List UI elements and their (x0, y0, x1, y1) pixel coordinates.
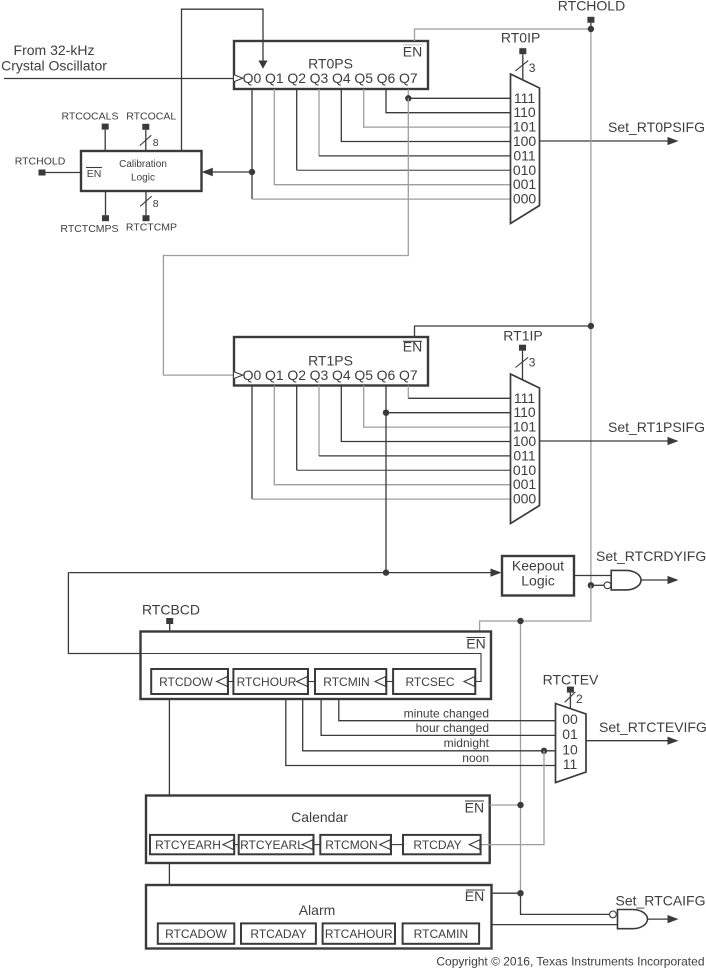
register RTCYEARL (239, 835, 314, 854)
svg-text:RTCMIN: RTCMIN (323, 675, 369, 689)
and gate U5 (RTCRDYIFG) (604, 570, 641, 590)
svg-text:Q4: Q4 (332, 367, 351, 383)
wire: RTCMON carry to RTCYEARL (314, 844, 321, 846)
node: Q7 junction (405, 95, 411, 101)
svg-text:Q5: Q5 (354, 367, 373, 383)
node: alarm EN junction (517, 890, 523, 896)
node: 1-Hz junction (383, 569, 389, 575)
wire: RT1PS Q6 to mux 110 (386, 386, 511, 413)
svg-text:EN: EN (87, 168, 102, 180)
svg-text:Crystal Oscillator: Crystal Oscillator (1, 58, 107, 74)
register block RTCBCD (141, 632, 492, 700)
svg-text:EN: EN (465, 800, 484, 816)
node: calendar EN junction (517, 802, 523, 808)
node: From 32-kHz Crystal Oscillator (1, 42, 107, 74)
register RTCYEARH (150, 835, 234, 854)
wire: RT1PS Q3 to mux 011 (318, 386, 320, 456)
wire: alarm EN to enable line (492, 892, 521, 894)
wire: RTCDAY carry to RTCMON (391, 844, 403, 846)
wire: RT0PS Q5 to mux 101 (364, 89, 511, 127)
svg-text:RTCAMIN: RTCAMIN (414, 927, 468, 941)
wire: RTCHOLD enable distribution elbow (480, 585, 591, 631)
wire: Set_RTCAIFG output (616, 893, 706, 924)
wire: enable vertical to calendar and alarm (520, 621, 522, 893)
port RTCOCAL bus 8 (126, 111, 176, 152)
register RTCHOUR (233, 669, 308, 694)
port RTCTEV bus 2 (543, 672, 599, 709)
wire: Set_RTCRDYIFG output (596, 548, 706, 584)
wire: RTCBCD to calendar (168, 699, 170, 796)
svg-text:RTCDAY: RTCDAY (413, 838, 461, 852)
port RTCHOLD (top) (558, 0, 625, 29)
wire: RTCMIN carry to RTCHOUR (308, 681, 315, 683)
svg-text:Keepout: Keepout (512, 558, 564, 574)
register RT1PS (234, 337, 428, 386)
svg-text:From 32-kHz: From 32-kHz (14, 42, 95, 58)
register RTCSEC (393, 669, 475, 694)
svg-text:Q1: Q1 (265, 70, 284, 86)
node: RTCHOLD junction (588, 26, 594, 32)
svg-text:000: 000 (513, 491, 537, 507)
svg-text:Copyright © 2016, Texas Instru: Copyright © 2016, Texas Instruments Inco… (436, 955, 704, 969)
wire: RT1PS Q0 to mux 000 (251, 386, 253, 500)
wire: keepout to AND gate (574, 575, 611, 577)
svg-text:midnight: midnight (444, 736, 490, 750)
mux U6 RTCTEV (556, 704, 587, 783)
wire: RT0PS Q7 down to RT1PS clock (163, 98, 408, 375)
svg-text:2: 2 (576, 692, 583, 706)
svg-text:RTCHOLD: RTCHOLD (558, 0, 625, 14)
node: midnight tap junction (541, 748, 547, 754)
svg-text:8: 8 (153, 198, 159, 210)
wire: RT0PS Q3 to mux 011 (318, 89, 320, 156)
svg-text:Set_RTCRDYIFG: Set_RTCRDYIFG (596, 548, 706, 564)
svg-text:Q1: Q1 (265, 367, 284, 383)
svg-text:Logic: Logic (131, 173, 155, 184)
svg-text:Q6: Q6 (377, 367, 396, 383)
wire: RTCHOLD to RT0PS EN (415, 29, 591, 41)
svg-text:RTCSEC: RTCSEC (405, 675, 454, 689)
svg-text:Calendar: Calendar (291, 809, 348, 825)
svg-text:Set_RTCAIFG: Set_RTCAIFG (616, 893, 706, 909)
wire: Set_RT1PSIFG output (540, 419, 706, 445)
wire: RT0PS Q1 to mux 001 (274, 89, 510, 185)
wire: noon to mux 11 (286, 699, 556, 766)
svg-text:RTCHOUR: RTCHOUR (237, 675, 297, 689)
keepout logic U4 (502, 556, 574, 596)
svg-text:Q0: Q0 (243, 367, 262, 383)
svg-text:Q7: Q7 (399, 70, 418, 86)
wire: RT0PS Q0 to mux 000 (251, 89, 253, 199)
wire: RT0PS Q6 to mux 110 (386, 89, 511, 113)
svg-text:RTCADAY: RTCADAY (250, 927, 306, 941)
svg-text:RTCDOW: RTCDOW (159, 675, 213, 689)
wire: RT1PS Q6 down to keepout/RTCSEC (385, 413, 387, 573)
register RTCDAY (403, 835, 481, 854)
register RTCMIN (315, 669, 386, 694)
svg-text:Q3: Q3 (310, 70, 329, 86)
wire: minute changed to mux 00 (339, 699, 556, 721)
node: Q6 junction (1 Hz) (383, 410, 389, 416)
register RTCDOW (151, 669, 228, 694)
node: RT1PS EN junction (588, 323, 594, 329)
wire: RT0PS Q7 to mux 111 (407, 89, 409, 98)
svg-text:RTCTCMPS: RTCTCMPS (60, 223, 118, 235)
svg-text:Q7: Q7 (399, 367, 418, 383)
wire: RT1PS Q2 to mux 010 (296, 386, 298, 471)
svg-text:Q5: Q5 (354, 70, 373, 86)
port RTCBCD (142, 602, 200, 632)
svg-text:RTCOCAL: RTCOCAL (126, 111, 176, 123)
register RTCAHOUR (323, 923, 395, 943)
wire: RT0PS Q4 to mux 100 (341, 89, 510, 142)
svg-text:8: 8 (153, 137, 159, 149)
wire: midnight to mux 10 (303, 699, 556, 751)
svg-text:RTCOCALS: RTCOCALS (62, 111, 119, 123)
svg-text:Alarm: Alarm (299, 902, 336, 918)
svg-text:RTCAHOUR: RTCAHOUR (325, 927, 393, 941)
svg-text:RTCYEARH: RTCYEARH (155, 838, 221, 852)
svg-text:Q2: Q2 (287, 70, 306, 86)
register RTCADAY (241, 923, 316, 943)
port RT1IP bus 3 (503, 328, 542, 381)
svg-text:Calibration: Calibration (119, 159, 167, 170)
wire: RTCYEARL carry to RTCYEARH (234, 844, 239, 846)
svg-text:00: 00 (562, 711, 578, 727)
svg-text:Q2: Q2 (287, 367, 306, 383)
mux U3 interrupt interval RT1PS (511, 374, 540, 524)
svg-text:Q4: Q4 (332, 70, 351, 86)
svg-text:Set_RT1PSIFG: Set_RT1PSIFG (608, 419, 705, 435)
wire: Set_RTCTEVIFG output (586, 719, 706, 745)
svg-text:01: 01 (562, 726, 578, 742)
wire: RT1PS Q7 to mux 111 (407, 386, 409, 399)
wire: midnight to RTCDAY clock (481, 751, 544, 845)
node: RTCHOLD tap for RDY gate (588, 582, 594, 588)
wire: RT1PS Q4 to mux 100 (341, 386, 510, 442)
wire: RT1PS Q1 to mux 001 (274, 386, 510, 485)
svg-text:3: 3 (529, 61, 536, 75)
wire: hour changed to mux 01 (321, 699, 555, 735)
svg-text:RTCBCD: RTCBCD (142, 602, 200, 618)
port RTCTCMPS (60, 191, 118, 235)
wire: RTCSEC clock feed inside box (141, 654, 482, 682)
svg-text:Set_RT0PSIFG: Set_RT0PSIFG (608, 119, 705, 135)
port RTCOCALS (62, 111, 119, 152)
wire: RTCHOLD to RT1PS EN (415, 326, 591, 337)
svg-text:3: 3 (529, 356, 536, 370)
wire: Q0 tap into calibration logic (202, 168, 256, 177)
wire: RTCSEC carry to RTCMIN (386, 681, 393, 683)
wire: 32-kHz clock to RT0PS clock input (4, 78, 233, 80)
wire: Set_RT0PSIFG output (540, 119, 706, 145)
register block Alarm (146, 885, 492, 949)
svg-text:minute changed: minute changed (404, 706, 489, 720)
wire: RT1PS Q5 to mux 101 (364, 386, 511, 428)
wire: alarm match to AND gate (492, 924, 618, 926)
wire: RTCHOUR carry to RTCDOW (228, 681, 233, 683)
node: enable junction at RTCBCD (517, 618, 523, 624)
wire: RTCHOLD main vertical (590, 29, 592, 585)
and gate U7 (RTCAIFG) (610, 910, 648, 929)
svg-text:RTCYEARL: RTCYEARL (240, 838, 304, 852)
svg-text:RT0IP: RT0IP (501, 30, 540, 46)
svg-text:RTCADOW: RTCADOW (165, 927, 227, 941)
wire: 1-Hz tick to RTCSEC clock (68, 573, 481, 682)
svg-text:Logic: Logic (521, 573, 554, 589)
svg-text:Q3: Q3 (310, 367, 329, 383)
wire: calendar EN to enable line (490, 804, 521, 806)
calibration logic U1 (81, 151, 202, 191)
register RT0PS (234, 41, 428, 89)
svg-text:000: 000 (513, 191, 537, 207)
register RTCMON (320, 835, 391, 854)
svg-text:RTCMON: RTCMON (325, 838, 377, 852)
wire: RT0PS Q2 to mux 010 (296, 89, 298, 170)
svg-text:EN: EN (403, 44, 422, 60)
svg-text:Set_RTCTEVIFG: Set_RTCTEVIFG (599, 719, 706, 735)
svg-text:RTCTCMP: RTCTCMP (126, 222, 177, 234)
register block Calendar (146, 796, 490, 864)
wire: RTCHOLD to alarm AND gate inverted input (521, 893, 610, 914)
wire: 1-Hz tick to keepout logic (68, 572, 491, 574)
svg-text:RT1IP: RT1IP (503, 328, 542, 344)
wire: RTCHOLD to AND gate inverted input (591, 584, 604, 586)
mux U2 interrupt interval RT0PS (511, 74, 540, 224)
port RTCHOLD (calibration) (15, 156, 81, 176)
svg-text:RTCTEV: RTCTEV (543, 672, 599, 688)
svg-text:10: 10 (562, 741, 578, 757)
svg-text:11: 11 (563, 756, 578, 772)
svg-text:RTCHOLD: RTCHOLD (15, 156, 66, 168)
svg-text:Q6: Q6 (377, 70, 396, 86)
svg-text:Q0: Q0 (243, 70, 262, 86)
svg-text:hour changed: hour changed (416, 721, 489, 735)
port RTCTCMP bus 8 (126, 191, 177, 234)
register RTCADOW (158, 923, 235, 943)
register RTCAMIN (403, 923, 480, 943)
port RT0IP bus 3 (501, 30, 540, 81)
svg-text:noon: noon (462, 751, 489, 765)
wire: calendar to alarm (168, 863, 170, 885)
wire: calibration logic output up and into RT0PS (182, 9, 264, 151)
